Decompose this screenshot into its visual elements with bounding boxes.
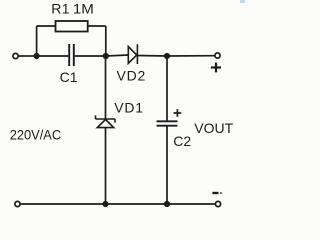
terminal: - output — [215, 201, 220, 206]
wire: VD2 to node C — [137, 55, 167, 58]
svg-text:VOUT: VOUT — [194, 120, 233, 136]
wire: C1 to node B — [75, 55, 106, 57]
node E (junction dot, bottom right) — [164, 201, 170, 207]
wire: node C down to C2 — [166, 56, 168, 121]
wire: R1 to right vertical — [88, 25, 106, 27]
diode VD2 — [128, 44, 137, 64]
wire: node C to + output terminal — [167, 55, 214, 57]
svg-text:VD2: VD2 — [117, 68, 147, 84]
node A (junction dot, top-left) — [34, 53, 40, 59]
wire: bottom rail middle — [106, 203, 168, 205]
wire: VD1 down to node D — [105, 128, 107, 204]
svg-text:C1: C1 — [60, 69, 78, 85]
wire: node A to C1 — [37, 55, 69, 57]
zener diode VD1 — [96, 115, 116, 127]
node C (junction dot, top right) — [164, 53, 170, 59]
decorative corner smudge — [240, 0, 245, 3]
wire: bottom rail right — [167, 203, 215, 205]
node B (junction dot, top middle) — [103, 53, 109, 59]
svg-text:1M: 1M — [73, 0, 94, 16]
svg-text:220V/AC: 220V/AC — [10, 127, 62, 143]
svg-text:C2: C2 — [173, 133, 191, 149]
svg-text:VD1: VD1 — [114, 99, 144, 115]
terminal: AC input top — [13, 53, 18, 58]
terminal: AC input bottom — [15, 201, 20, 206]
wire: bottom rail left — [21, 203, 106, 205]
polarity mark + at C2 — [174, 109, 182, 117]
polarity mark - at output terminal — [212, 192, 221, 194]
terminal: + output — [215, 53, 220, 58]
capacitor C2 (polarized) — [157, 121, 178, 125]
wire: input to node A — [19, 55, 34, 57]
node D (junction dot, bottom middle) — [102, 201, 108, 207]
svg-text:R1: R1 — [51, 0, 70, 16]
wire: node B to diode VD2 — [106, 55, 129, 56]
wire: left horizontal to R1 — [37, 25, 56, 27]
polarity mark + at output terminal — [211, 63, 221, 73]
wire: C2 down to node E — [166, 126, 168, 204]
wire: node B down to zener VD1 — [105, 56, 107, 119]
resistor R1 — [56, 21, 88, 32]
wire: right vertical of R1 branch down to node B — [105, 26, 107, 56]
capacitor C1 — [69, 44, 74, 66]
wire: node B up-branch left vertical of R1 — [36, 26, 38, 56]
